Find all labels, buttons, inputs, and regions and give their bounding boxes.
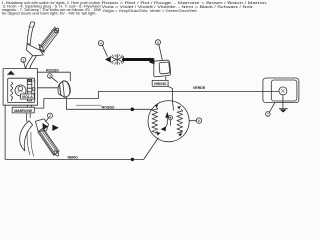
pointer arrow (black) at button xyxy=(52,125,58,131)
wire coil to magneto xyxy=(168,86,174,110)
svg-text:VIOLA: VIOLA xyxy=(22,95,33,99)
item circle 6 xyxy=(189,118,202,123)
bulb filament squiggle xyxy=(11,82,13,100)
svg-text:for dipped beam and town light: for dipped beam and town light; 6V - 4W … xyxy=(2,11,97,15)
handlebar grip (hatched) xyxy=(38,128,60,157)
brake lever upper (blade) xyxy=(27,22,35,44)
headlamp inner box xyxy=(8,78,35,102)
brake lever xyxy=(20,121,33,151)
headlamp bulb circle xyxy=(15,85,26,96)
tail lamp (7) xyxy=(263,78,299,103)
headlamp switch strip xyxy=(27,79,35,100)
junction dot on nero wire xyxy=(131,158,134,161)
horn xyxy=(58,81,70,97)
label VIOLA xyxy=(20,94,34,99)
svg-text:ROSSO: ROSSO xyxy=(46,69,59,73)
headlamp outer box xyxy=(3,69,37,106)
flywheel magneto (6) xyxy=(148,101,189,142)
HT cable (thick) xyxy=(123,58,152,61)
horn push button (black) xyxy=(42,123,48,130)
item circle 4 xyxy=(98,41,107,57)
ground symbol xyxy=(279,109,287,113)
spark plug symbol xyxy=(105,54,123,64)
item circle 5 xyxy=(155,40,162,60)
wire nero (headlamp to magneto along bottom) xyxy=(5,105,158,159)
handlebar lower tube into headlamp xyxy=(26,56,33,69)
headlamp dipped-beam symbol (black triangle) xyxy=(7,71,14,76)
svg-text:MARRONE: MARRONE xyxy=(14,109,33,113)
tail lamp earth wire xyxy=(282,95,284,108)
item circle 2 xyxy=(46,113,53,122)
label MARRONE xyxy=(12,107,34,113)
svg-text:ROSSO: ROSSO xyxy=(102,105,115,109)
item circle 1 xyxy=(21,57,26,68)
wire rosso top (headlamp to horn) xyxy=(38,72,71,81)
legend note right (3 lines) xyxy=(102,1,268,13)
ignition coil zigzag right xyxy=(177,111,183,133)
horn button housing xyxy=(35,119,48,131)
lighting coil zigzag left xyxy=(152,109,158,133)
svg-text:VERDE: VERDE xyxy=(193,86,206,90)
twist grip cylinder xyxy=(39,27,60,53)
svg-text:NERO: NERO xyxy=(68,155,78,159)
label GRIGIO xyxy=(152,77,168,87)
svg-text:GRIGIO: GRIGIO xyxy=(154,82,167,86)
handlebar housing clamp xyxy=(27,44,44,56)
condenser circle xyxy=(168,116,172,120)
wire rosso bottom (horn to magneto) xyxy=(66,97,151,109)
lower handlebar tube xyxy=(26,105,29,121)
item circle 7 xyxy=(266,103,275,117)
contact breaker stem xyxy=(165,117,167,129)
label ROSSO bottom xyxy=(76,104,101,106)
legend note left (4 lines) xyxy=(2,1,102,15)
svg-text:Grigio = Grey/Grau/Gris. Verde: Grigio = Grey/Grau/Gris. Verde = Green/G… xyxy=(103,9,198,13)
wire marrone/verde: marrone label to tail lamp with steps xyxy=(34,91,279,108)
wire viola (headlamp to horn left) xyxy=(38,87,58,89)
item circle 3 xyxy=(48,73,58,82)
HT coil box xyxy=(149,58,171,77)
junction dot on rosso wire xyxy=(131,108,135,112)
